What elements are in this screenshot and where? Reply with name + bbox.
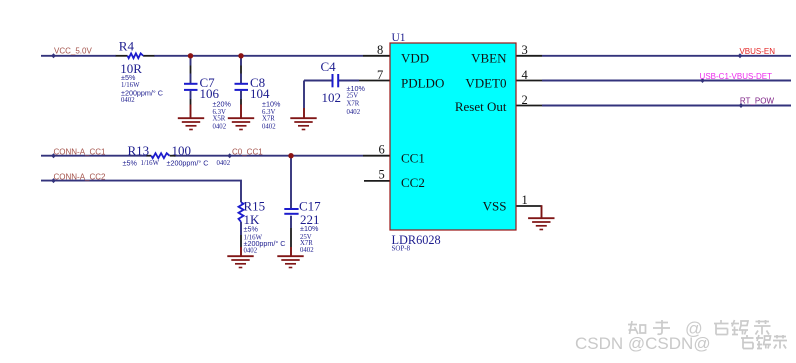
svg-text:CONN-A_CC1: CONN-A_CC1 bbox=[54, 148, 107, 157]
svg-text:RT_POW: RT_POW bbox=[740, 96, 775, 105]
svg-text:0402: 0402 bbox=[262, 123, 276, 130]
svg-text:VBEN: VBEN bbox=[471, 51, 507, 66]
svg-text:2: 2 bbox=[522, 93, 528, 107]
svg-text:0402: 0402 bbox=[300, 247, 314, 254]
svg-text:VBUS-EN: VBUS-EN bbox=[739, 47, 775, 56]
svg-text:102: 102 bbox=[322, 90, 342, 105]
svg-text:X5R: X5R bbox=[213, 116, 226, 123]
svg-text:VCC_5.0V: VCC_5.0V bbox=[54, 47, 92, 56]
svg-text:0402: 0402 bbox=[213, 123, 227, 130]
svg-text:0402: 0402 bbox=[121, 97, 135, 104]
svg-text:6: 6 bbox=[379, 143, 385, 157]
svg-text:C0_CC1: C0_CC1 bbox=[232, 148, 263, 157]
svg-text:Reset Out: Reset Out bbox=[455, 99, 507, 114]
svg-text:CC2: CC2 bbox=[401, 175, 425, 190]
svg-text:1: 1 bbox=[522, 193, 528, 207]
svg-text:±200ppm/° C: ±200ppm/° C bbox=[167, 158, 209, 167]
svg-text:USB-C1-VBUS-DET: USB-C1-VBUS-DET bbox=[700, 72, 773, 81]
svg-text:±200ppm/° C: ±200ppm/° C bbox=[121, 88, 163, 97]
svg-text:0402: 0402 bbox=[347, 109, 361, 116]
svg-text:8: 8 bbox=[377, 43, 383, 57]
svg-text:R4: R4 bbox=[119, 38, 135, 53]
svg-text:VSS: VSS bbox=[483, 199, 507, 214]
svg-text:PDLDO: PDLDO bbox=[401, 75, 444, 90]
svg-text:CC1: CC1 bbox=[401, 151, 425, 166]
svg-text:±10%: ±10% bbox=[300, 224, 319, 233]
svg-text:±10%: ±10% bbox=[347, 84, 366, 93]
svg-text:R13: R13 bbox=[128, 143, 150, 158]
svg-text:VDD: VDD bbox=[401, 51, 429, 66]
svg-text:R15: R15 bbox=[244, 198, 266, 213]
svg-text:VDET0: VDET0 bbox=[465, 75, 506, 90]
svg-text:1/16W: 1/16W bbox=[141, 160, 160, 167]
svg-text:X7R: X7R bbox=[262, 116, 275, 123]
svg-text:CONN-A_CC2: CONN-A_CC2 bbox=[54, 172, 107, 181]
svg-text:CSDN @CSDN@: CSDN @CSDN@ bbox=[575, 334, 711, 353]
svg-text:0402: 0402 bbox=[244, 248, 258, 255]
svg-text:7: 7 bbox=[377, 68, 383, 82]
svg-text:100: 100 bbox=[172, 143, 192, 158]
svg-text:0402: 0402 bbox=[217, 160, 231, 167]
svg-text:±5%: ±5% bbox=[121, 73, 136, 82]
svg-text:C17: C17 bbox=[299, 198, 321, 213]
svg-text:5: 5 bbox=[379, 168, 385, 182]
svg-text:U1: U1 bbox=[392, 32, 406, 44]
svg-text:4: 4 bbox=[522, 68, 529, 82]
svg-text:3: 3 bbox=[522, 43, 528, 57]
svg-text:X7R: X7R bbox=[347, 101, 360, 108]
svg-text:±20%: ±20% bbox=[213, 100, 232, 109]
svg-text:±10%: ±10% bbox=[262, 100, 281, 109]
svg-text:±5%: ±5% bbox=[244, 225, 259, 234]
svg-text:X7R: X7R bbox=[300, 240, 313, 247]
svg-text:C4: C4 bbox=[321, 59, 337, 74]
svg-text:±5%: ±5% bbox=[123, 158, 138, 167]
svg-text:SOP-8: SOP-8 bbox=[392, 245, 411, 253]
svg-text:25V: 25V bbox=[347, 93, 359, 100]
